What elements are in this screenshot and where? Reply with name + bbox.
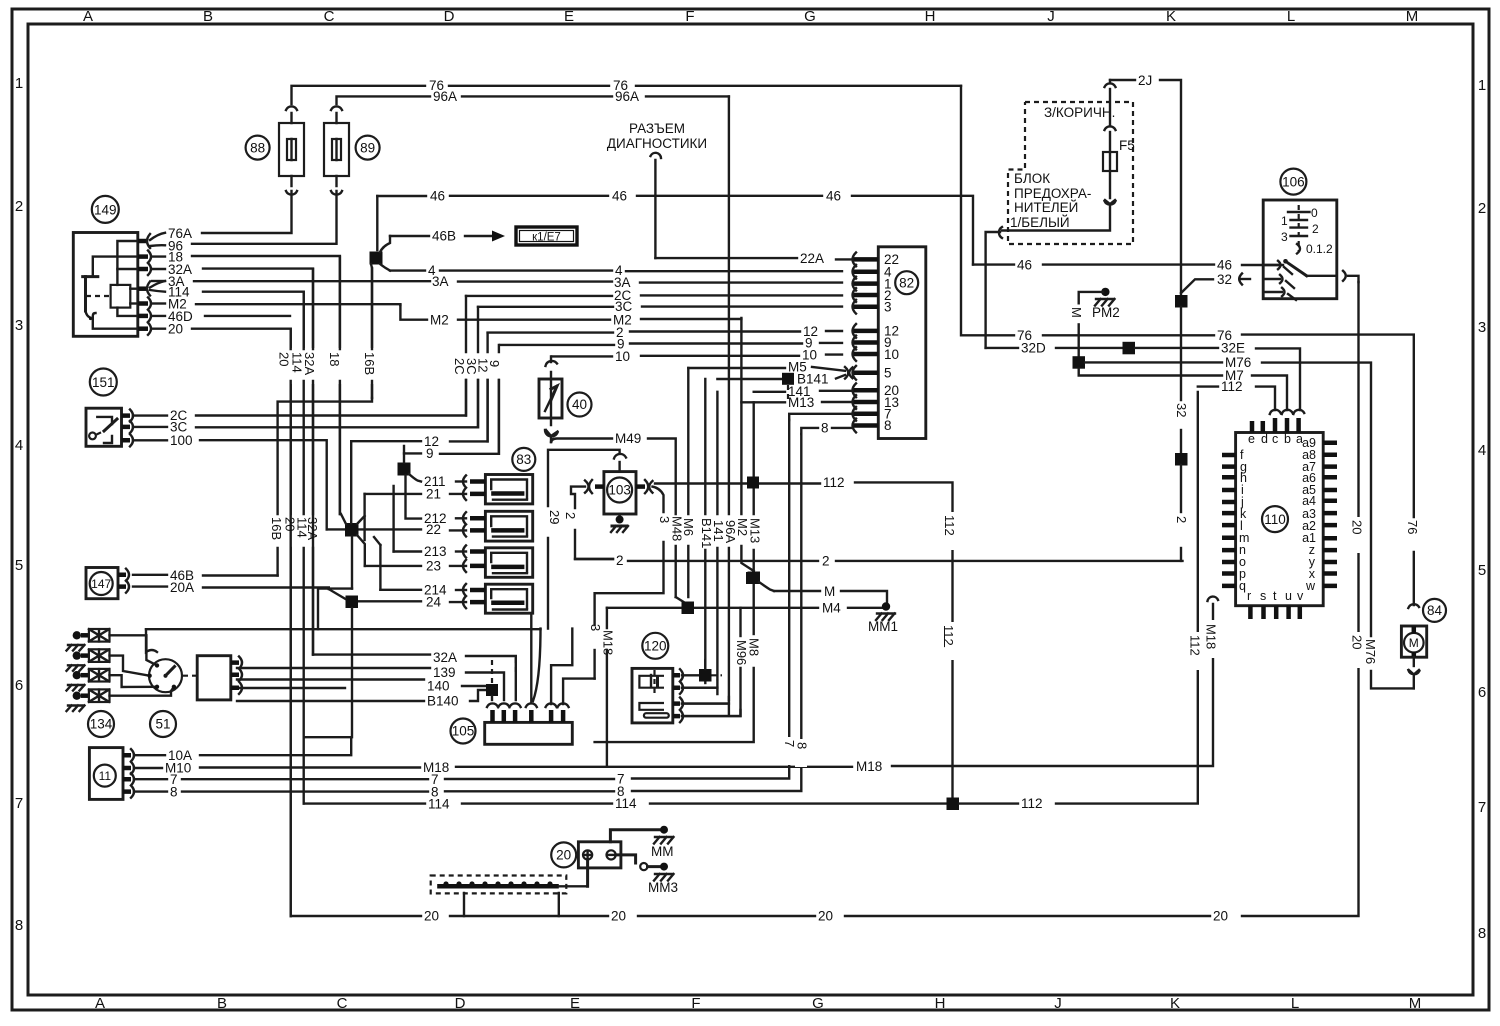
svg-text:112: 112 bbox=[1221, 379, 1243, 394]
svg-text:8: 8 bbox=[795, 742, 810, 749]
wire M2 row bbox=[400, 305, 741, 328]
svg-text:1: 1 bbox=[15, 75, 23, 92]
wire 10 row bbox=[552, 348, 842, 365]
circle label 51 bbox=[150, 711, 176, 737]
svg-text:2: 2 bbox=[1478, 200, 1486, 217]
svg-text:A: A bbox=[95, 995, 105, 1012]
wire M76 row bbox=[1073, 355, 1414, 688]
svg-text:1: 1 bbox=[1478, 77, 1486, 94]
wire 32A row to injectors bbox=[313, 650, 516, 700]
svg-text:46B: 46B bbox=[170, 568, 194, 583]
svg-text:22A: 22A bbox=[800, 251, 824, 266]
svg-text:ПРЕДОХРА-: ПРЕДОХРА- bbox=[1014, 186, 1091, 201]
svg-text:106: 106 bbox=[1282, 174, 1305, 189]
svg-text:G: G bbox=[804, 8, 816, 25]
svg-text:6: 6 bbox=[15, 677, 23, 694]
ignition coil 20 bbox=[551, 826, 678, 895]
wire column 352 lower bbox=[351, 608, 353, 737]
rotated labels 29 2 bbox=[547, 510, 578, 524]
svg-text:r: r bbox=[1247, 589, 1251, 603]
svg-text:10: 10 bbox=[884, 347, 899, 362]
wire 2 row (pin12) bbox=[488, 324, 842, 340]
high tension wire distributor to coils bbox=[146, 589, 541, 630]
svg-text:5: 5 bbox=[1478, 562, 1486, 579]
wire 46 down to switch row bbox=[973, 258, 1283, 273]
svg-text:C: C bbox=[337, 995, 348, 1012]
relay 149 bbox=[73, 196, 138, 336]
ignition coil 2 bbox=[463, 511, 533, 541]
sensor 103 bbox=[548, 450, 664, 679]
wire M7 row bbox=[1079, 368, 1287, 410]
svg-text:F: F bbox=[685, 8, 694, 25]
svg-text:2: 2 bbox=[822, 554, 830, 569]
svg-text:11: 11 bbox=[99, 769, 112, 783]
svg-text:7: 7 bbox=[15, 795, 23, 812]
svg-text:З/КОРИЧН.: З/КОРИЧН. bbox=[1044, 105, 1115, 120]
connector 82 bbox=[852, 247, 926, 439]
wire 212 row bbox=[424, 511, 466, 526]
node M junction bbox=[746, 572, 774, 591]
svg-text:M49: M49 bbox=[615, 431, 641, 446]
redraw rotated labels bbox=[782, 403, 1420, 749]
svg-text:3: 3 bbox=[15, 317, 23, 334]
rotated labels 3 M18 bbox=[588, 624, 616, 655]
node junction 46/46B/4/16B bbox=[370, 196, 391, 398]
connector 147 bbox=[86, 568, 129, 599]
svg-text:46B: 46B bbox=[432, 229, 456, 244]
svg-text:MM3: MM3 bbox=[648, 880, 678, 895]
svg-text:46: 46 bbox=[1017, 258, 1032, 273]
wire 3C upper row bbox=[478, 299, 842, 314]
svg-text:112: 112 bbox=[1188, 635, 1203, 656]
circle label 83 bbox=[512, 448, 535, 471]
ECU 110 bbox=[1222, 410, 1337, 619]
wire 112 to right column bbox=[959, 392, 1198, 811]
rotated labels M8 M96 below bbox=[734, 638, 762, 665]
wire 7 long row bbox=[134, 420, 789, 787]
svg-text:2: 2 bbox=[616, 553, 624, 568]
node square1 coil feed bbox=[398, 453, 422, 518]
wire 76 top row bbox=[292, 78, 962, 104]
wire 46D from 149 bbox=[152, 309, 290, 324]
wire 1/БЕЛЫЙ hook to 32D column bbox=[986, 227, 1002, 348]
rotated label M18 right bbox=[1204, 624, 1219, 649]
circle label 40 bbox=[568, 393, 592, 417]
svg-text:D: D bbox=[455, 995, 466, 1012]
ignition coil 1 (83 group) bbox=[463, 475, 533, 504]
149 pin hooks bbox=[138, 234, 151, 335]
svg-text:ДИАГНОСТИКИ: ДИАГНОСТИКИ bbox=[607, 136, 707, 151]
injector feeds pin4 pin5 bbox=[531, 613, 572, 704]
rotated labels 2C 3C 12 9 columns bbox=[458, 355, 510, 377]
svg-text:10: 10 bbox=[615, 349, 630, 364]
node square 20A/24 bbox=[329, 589, 358, 608]
wire 8 to pin8 bbox=[801, 421, 852, 436]
circle label 134 bbox=[88, 711, 114, 737]
svg-text:112: 112 bbox=[823, 475, 845, 490]
svg-text:M4: M4 bbox=[822, 601, 841, 616]
dashed link bbox=[515, 658, 517, 672]
M18 top hook bbox=[1208, 597, 1219, 601]
ignition coil 4 bbox=[463, 584, 533, 613]
svg-text:F: F bbox=[691, 995, 700, 1012]
svg-text:147: 147 bbox=[91, 577, 111, 591]
svg-text:L: L bbox=[1287, 8, 1295, 25]
svg-text:G: G bbox=[812, 995, 824, 1012]
svg-text:E: E bbox=[564, 8, 574, 25]
svg-text:20: 20 bbox=[168, 322, 183, 337]
svg-text:1: 1 bbox=[1281, 214, 1288, 228]
svg-text:134: 134 bbox=[90, 717, 113, 732]
svg-text:46: 46 bbox=[1217, 258, 1232, 273]
svg-text:18: 18 bbox=[327, 352, 342, 366]
row numbers left bbox=[15, 75, 23, 934]
svg-text:46: 46 bbox=[826, 189, 841, 204]
wire 2C upper row bbox=[466, 288, 842, 303]
node M4 square bbox=[682, 602, 695, 615]
svg-text:114: 114 bbox=[615, 796, 637, 811]
wire 46B with arrow bbox=[390, 229, 505, 244]
wire 21 row bbox=[365, 487, 466, 502]
svg-text:96A: 96A bbox=[615, 89, 639, 104]
wire 22 row bbox=[327, 522, 466, 537]
svg-text:9: 9 bbox=[487, 360, 502, 367]
svg-text:M: M bbox=[1406, 8, 1419, 25]
wire B141 row + square bbox=[717, 372, 845, 400]
fuse 88 bbox=[279, 106, 304, 194]
sensor 40 bbox=[539, 356, 562, 442]
wire 114 from 149 bbox=[150, 285, 304, 350]
svg-text:4: 4 bbox=[1478, 442, 1486, 459]
svg-text:B: B bbox=[217, 995, 227, 1012]
rotated labels 3 M48 M6 B141 141 96A M2 M13 bbox=[657, 516, 763, 548]
wire 211 row bbox=[424, 474, 466, 489]
wire 20 bottom row bbox=[291, 282, 1359, 924]
svg-text:НИТЕЛЕЙ: НИТЕЛЕЙ bbox=[1014, 200, 1078, 215]
svg-text:M13: M13 bbox=[748, 518, 763, 543]
svg-text:M18: M18 bbox=[856, 759, 882, 774]
svg-text:16B: 16B bbox=[362, 352, 377, 375]
wire 3A pigtail from 149 bbox=[150, 274, 185, 289]
distributor rotor 51 bbox=[146, 629, 196, 692]
pin5 X contact bbox=[845, 367, 853, 379]
node X-square ignition nest bbox=[341, 441, 394, 589]
svg-text:32: 32 bbox=[1217, 272, 1232, 287]
center columns bbox=[676, 96, 760, 700]
wire 3 branch to pin6 bbox=[563, 679, 595, 704]
svg-text:20: 20 bbox=[611, 909, 626, 924]
motor 84 bbox=[1401, 599, 1446, 689]
wire 96A top row bbox=[337, 89, 729, 104]
svg-text:149: 149 bbox=[94, 202, 117, 217]
svg-text:46: 46 bbox=[612, 189, 627, 204]
svg-text:2: 2 bbox=[15, 198, 23, 215]
svg-text:1/БЕЛЫЙ: 1/БЕЛЫЙ bbox=[1010, 215, 1070, 230]
svg-text:J: J bbox=[1047, 8, 1055, 25]
svg-text:112: 112 bbox=[941, 625, 956, 646]
svg-text:2J: 2J bbox=[1138, 73, 1152, 88]
svg-text:e: e bbox=[1248, 432, 1255, 446]
svg-text:24: 24 bbox=[426, 595, 442, 610]
svg-text:2: 2 bbox=[1312, 222, 1319, 236]
svg-text:M76: M76 bbox=[1363, 639, 1378, 664]
svg-text:A: A bbox=[83, 8, 93, 25]
svg-text:120: 120 bbox=[644, 639, 667, 654]
svg-text:213: 213 bbox=[424, 544, 447, 559]
svg-text:0: 0 bbox=[1311, 206, 1318, 220]
wire 24 row bbox=[358, 595, 466, 610]
wire 9 lower row bbox=[404, 380, 499, 461]
wire 214 row bbox=[380, 583, 466, 598]
svg-text:20: 20 bbox=[1350, 635, 1365, 649]
wire M49 row bbox=[551, 431, 676, 597]
svg-text:20: 20 bbox=[1350, 520, 1365, 534]
svg-text:M96: M96 bbox=[734, 640, 749, 665]
wire 141 row bbox=[754, 384, 852, 399]
svg-text:20: 20 bbox=[556, 848, 571, 863]
connector 11 bbox=[89, 748, 134, 800]
svg-text:M: M bbox=[1069, 307, 1084, 318]
svg-text:РАЗЪЕМ: РАЗЪЕМ bbox=[629, 121, 685, 136]
svg-text:89: 89 bbox=[360, 140, 375, 155]
fuse 89 bbox=[324, 106, 349, 194]
wire M10 M18 row bbox=[134, 604, 1213, 776]
relay box 120 bbox=[632, 633, 741, 723]
svg-text:88: 88 bbox=[250, 140, 265, 155]
svg-text:M: M bbox=[1409, 995, 1422, 1012]
svg-text:32A: 32A bbox=[305, 517, 320, 540]
wire 18 from 149 bbox=[152, 250, 340, 515]
box k1/E7 bbox=[516, 227, 577, 245]
wire M4 row bbox=[607, 601, 884, 616]
svg-text:103: 103 bbox=[608, 483, 631, 498]
spark plugs 134 bbox=[67, 629, 110, 711]
svg-text:8: 8 bbox=[1478, 925, 1486, 942]
wire M5 row bbox=[688, 360, 845, 375]
rotated labels 7 8 bbox=[782, 738, 810, 747]
svg-text:20: 20 bbox=[1213, 909, 1228, 924]
svg-text:8: 8 bbox=[15, 917, 23, 934]
svg-text:w: w bbox=[1305, 579, 1316, 593]
svg-text:76: 76 bbox=[1405, 520, 1420, 534]
wire 20 from 149 bbox=[152, 322, 291, 917]
wire 100 from 151 bbox=[133, 433, 327, 529]
svg-text:M10: M10 bbox=[165, 761, 191, 776]
wire 12 lower row bbox=[351, 380, 487, 449]
svg-text:5: 5 bbox=[15, 557, 23, 574]
svg-text:8: 8 bbox=[821, 421, 829, 436]
node B140 square bbox=[486, 660, 498, 700]
svg-text:8: 8 bbox=[170, 785, 178, 800]
wire 114 112 long row bbox=[304, 796, 946, 812]
wire 140 row bbox=[237, 679, 486, 694]
svg-text:0.1.2: 0.1.2 bbox=[1306, 242, 1333, 256]
wire 213 row bbox=[394, 544, 466, 559]
svg-text:a4: a4 bbox=[1302, 494, 1316, 508]
wire 20A row from 147 bbox=[133, 580, 329, 595]
diagnostic connector drop bbox=[651, 153, 662, 258]
svg-text:96A: 96A bbox=[433, 89, 457, 104]
wire M13 row bbox=[741, 395, 852, 410]
svg-text:u: u bbox=[1285, 589, 1292, 603]
svg-text:K: K bbox=[1166, 8, 1176, 25]
wire 46 long row bbox=[377, 189, 973, 265]
svg-text:83: 83 bbox=[516, 452, 531, 467]
svg-text:3: 3 bbox=[1281, 230, 1288, 244]
wire 32A from 149 bbox=[152, 262, 313, 655]
svg-text:6: 6 bbox=[1478, 684, 1486, 701]
node square M13/112 bbox=[747, 477, 759, 489]
wire 32 from switch bbox=[1181, 272, 1250, 293]
wire 9 row bbox=[500, 336, 842, 352]
wire 23 row bbox=[365, 559, 466, 574]
svg-text:M13: M13 bbox=[788, 395, 814, 410]
svg-text:H: H bbox=[935, 995, 946, 1012]
column letters top bbox=[83, 8, 1418, 25]
svg-text:3: 3 bbox=[884, 300, 892, 315]
ignition switch 106 bbox=[1263, 169, 1358, 300]
wire M2 from 149 bbox=[152, 297, 400, 312]
wire 4 row bbox=[390, 263, 842, 278]
svg-text:82: 82 bbox=[899, 275, 914, 290]
wire 2 long row bbox=[575, 553, 1183, 569]
svg-text:151: 151 bbox=[92, 375, 115, 390]
svg-text:M18: M18 bbox=[1204, 624, 1219, 649]
svg-text:51: 51 bbox=[155, 717, 170, 732]
svg-text:к1/Е7: к1/Е7 bbox=[532, 232, 561, 244]
svg-text:q: q bbox=[1239, 579, 1246, 593]
svg-text:3A: 3A bbox=[432, 274, 449, 289]
svg-text:E: E bbox=[570, 995, 580, 1012]
svg-text:20: 20 bbox=[424, 909, 439, 924]
svg-text:8: 8 bbox=[884, 418, 892, 433]
svg-text:100: 100 bbox=[170, 433, 193, 448]
switch 151 bbox=[86, 369, 133, 447]
svg-text:110: 110 bbox=[1264, 512, 1286, 527]
column M18 bbox=[606, 608, 608, 766]
wire 76 row3 bbox=[961, 86, 1414, 605]
wire 2C from 151 bbox=[133, 380, 466, 423]
node 112 square bbox=[947, 798, 960, 811]
wire 8 long row bbox=[134, 434, 801, 800]
rotated column labels 20 114 32A 18 16B bbox=[280, 352, 379, 375]
wire 2J bbox=[1110, 73, 1181, 295]
wire 16B jog bbox=[278, 398, 372, 576]
svg-text:4: 4 bbox=[15, 437, 23, 454]
wire 10A row bbox=[134, 737, 351, 763]
svg-text:40: 40 bbox=[572, 397, 587, 412]
svg-text:32D: 32D bbox=[1021, 341, 1046, 356]
wire 76A from 149 bbox=[150, 191, 292, 241]
svg-text:t: t bbox=[1273, 589, 1277, 603]
svg-text:2: 2 bbox=[563, 512, 578, 519]
circle label 105 bbox=[451, 719, 476, 744]
svg-text:112: 112 bbox=[942, 515, 957, 536]
ground MM1 bbox=[868, 602, 898, 634]
ground PM2 bbox=[1069, 288, 1120, 356]
svg-text:F5: F5 bbox=[1119, 138, 1135, 153]
distributor connector box bbox=[197, 656, 242, 700]
wire 139 row bbox=[237, 665, 504, 700]
plug wires to distributor bbox=[110, 635, 174, 695]
wire M row bbox=[774, 584, 887, 602]
svg-text:3: 3 bbox=[1478, 319, 1486, 336]
svg-text:23: 23 bbox=[426, 559, 441, 574]
wire 32D 32E row bbox=[986, 341, 1300, 411]
circle label 89 bbox=[356, 136, 380, 160]
svg-text:M: M bbox=[1409, 636, 1419, 650]
svg-text:9: 9 bbox=[426, 446, 434, 461]
svg-text:H: H bbox=[925, 8, 936, 25]
svg-text:B: B bbox=[203, 8, 213, 25]
svg-text:L: L bbox=[1291, 995, 1299, 1012]
svg-text:MM: MM bbox=[651, 844, 674, 859]
svg-text:22: 22 bbox=[426, 522, 441, 537]
rotated labels redrawn on white bbox=[277, 352, 378, 375]
wire 3C from 151 bbox=[133, 380, 478, 435]
svg-text:20: 20 bbox=[277, 352, 292, 366]
svg-text:32A: 32A bbox=[302, 352, 317, 375]
column gaps for labels bbox=[282, 348, 382, 384]
svg-text:PM2: PM2 bbox=[1092, 305, 1120, 320]
svg-text:46: 46 bbox=[430, 189, 445, 204]
ignition coil 3 bbox=[463, 545, 533, 577]
condenser unit dashed bbox=[431, 876, 588, 917]
circle label 88 bbox=[246, 136, 270, 160]
svg-text:K: K bbox=[1170, 995, 1180, 1012]
column letters bottom bbox=[95, 995, 1421, 1012]
svg-text:c: c bbox=[1272, 432, 1278, 446]
rotated labels 112 112 bbox=[941, 518, 1203, 656]
re-draw columns through label zone bbox=[291, 257, 372, 916]
svg-text:32E: 32E bbox=[1221, 341, 1245, 356]
svg-text:s: s bbox=[1260, 589, 1266, 603]
svg-text:29: 29 bbox=[547, 510, 562, 524]
svg-text:J: J bbox=[1054, 995, 1062, 1012]
fuse block dashed box bbox=[1008, 102, 1133, 244]
row numbers right bbox=[1478, 77, 1486, 942]
svg-text:D: D bbox=[444, 8, 455, 25]
node squares on 32 column bbox=[1175, 295, 1188, 561]
svg-text:32A: 32A bbox=[433, 650, 457, 665]
wire 22A row bbox=[655, 251, 852, 266]
svg-text:M: M bbox=[824, 584, 835, 599]
svg-text:M2: M2 bbox=[430, 313, 449, 328]
wire B140 row bbox=[237, 688, 486, 709]
wire 112 row right bbox=[1198, 379, 1275, 410]
svg-text:v: v bbox=[1297, 589, 1304, 603]
svg-text:140: 140 bbox=[427, 679, 450, 694]
white gaps for rotated labels on long columns bbox=[783, 400, 1420, 767]
svg-text:112: 112 bbox=[1021, 796, 1043, 811]
svg-text:20: 20 bbox=[818, 909, 833, 924]
svg-text:5: 5 bbox=[884, 366, 892, 381]
label РАЗЪЕМ ДИАГНОСТИКИ bbox=[607, 121, 707, 151]
svg-text:7: 7 bbox=[1478, 799, 1486, 816]
svg-text:d: d bbox=[1261, 432, 1268, 446]
svg-text:MM1: MM1 bbox=[868, 619, 898, 634]
wire 3A row bbox=[152, 274, 842, 290]
svg-text:b: b bbox=[1284, 432, 1291, 446]
svg-text:32: 32 bbox=[1174, 403, 1189, 417]
svg-text:B140: B140 bbox=[427, 694, 459, 709]
svg-text:114: 114 bbox=[428, 797, 450, 812]
wire 112 row center bbox=[655, 475, 953, 798]
svg-text:105: 105 bbox=[452, 724, 475, 739]
wire 7 to pin7 bbox=[789, 414, 852, 420]
svg-text:C: C bbox=[324, 8, 335, 25]
fuse F5 bbox=[1002, 80, 1135, 231]
